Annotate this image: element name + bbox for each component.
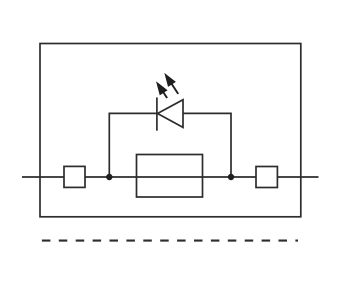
- LED D1: triangle: [158, 100, 184, 128]
- right clamp contact: [256, 167, 277, 188]
- wire: LED branch right segment: [183, 113, 231, 177]
- terminal block outline: [40, 44, 301, 217]
- junction node right: [228, 174, 234, 180]
- left clamp contact: [64, 166, 85, 187]
- LED light arrow 2: [165, 74, 178, 94]
- LED light arrow 1: [157, 82, 167, 98]
- fuse F1: [137, 155, 203, 198]
- LED D1: cathode bar: [156, 97, 158, 130]
- dashed separator line: [42, 240, 298, 242]
- wire: LED branch left segment: [109, 113, 157, 177]
- wire: main conductor through-path: [22, 176, 319, 178]
- junction node left: [106, 174, 112, 180]
